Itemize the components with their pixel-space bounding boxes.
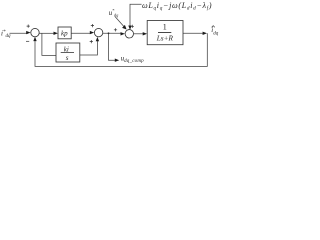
plus sign at S2 kp input [91,24,94,27]
arrowhead diagonal into S3 [122,25,127,30]
plus sign at S1 input [27,25,30,28]
wire branch down to u_dq_comp [109,33,116,60]
svg-text:udq_comp: udq_comp [121,54,145,64]
arrowhead into kp [54,32,58,35]
plus sign at S3 left input [114,28,117,31]
wire S3 output to plant [134,33,144,35]
arrowhead u_dq_comp [115,59,119,62]
svg-text:u*dq: u*dq [109,8,119,18]
svg-text:Ls+R: Ls+R [156,34,174,42]
svg-text:kp: kp [61,30,68,38]
arrowhead into S3 left [121,32,125,35]
summing junction S1 [31,28,39,36]
junction dot [108,32,110,34]
wire feedback loop [35,33,207,66]
hat over output i [212,26,215,28]
wire branch down to ki block [42,33,56,55]
minus sign at S1 feedback [26,40,29,42]
wire plant output [183,32,204,34]
wire input arrow [10,32,29,34]
wire error line to kp [39,32,54,34]
plus sign at S3 top input [131,25,134,28]
arrowhead ki up into S2 [96,37,99,41]
wire kp output to summing junction S2 [71,32,91,34]
summing junction S3 [125,30,133,38]
arrowhead vertical into S3 [128,26,131,30]
arrowhead feedback up into S1 [33,37,36,41]
svg-text:1: 1 [163,23,167,32]
arrowhead into S1 [26,31,30,34]
summing junction S2 [94,28,102,36]
block plant 1/(Ls+R) [147,21,183,45]
svg-text:idq: idq [211,26,218,36]
plus sign at S2 ki input [90,40,93,43]
svg-text:i*dq: i*dq [1,30,11,40]
wire decoupling elbow from expression [130,4,142,26]
svg-text:s: s [66,54,69,62]
block kp [58,27,71,39]
wire ki output up into S2 [80,41,98,56]
wire S2 output to S3 [103,32,122,34]
svg-text:ωLqiq−jω(Ldid−λf): ωLqiq−jω(Ldid−λf) [142,1,212,12]
block ki/s [56,43,80,62]
wire feedforward diagonal from u*dq [115,17,124,27]
arrowhead into plant [143,32,147,35]
arrowhead into S2 left [90,31,94,34]
arrowhead plant output [203,32,207,35]
